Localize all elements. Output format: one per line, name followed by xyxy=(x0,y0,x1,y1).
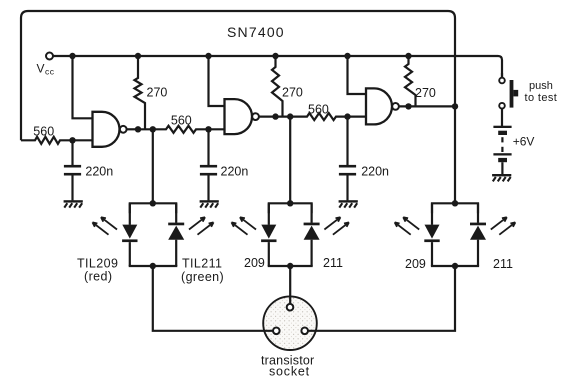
svg-text:209: 209 xyxy=(405,257,426,271)
wire LED pair 3 top rail xyxy=(432,203,478,213)
wire rail to switch xyxy=(501,73,503,78)
wire U1a output xyxy=(127,128,138,130)
LED 2 red (cathode down) xyxy=(268,203,270,225)
capacitor 220n (first) xyxy=(71,140,73,165)
socket pin left (emitter) xyxy=(273,328,280,335)
ground (under C1) xyxy=(64,200,83,202)
LED 2 green (cathode up) xyxy=(311,203,313,223)
switch top terminal xyxy=(499,78,505,84)
wire U1c top input from rail xyxy=(348,56,367,94)
svg-text:cc: cc xyxy=(45,67,55,77)
svg-text:+6V: +6V xyxy=(513,135,535,149)
LED 3 green (cathode up) xyxy=(477,203,479,223)
resistor 270 (first) xyxy=(135,56,146,129)
junction LED pair 2 bottom xyxy=(287,263,293,269)
junction U1b output / LED drop xyxy=(287,113,293,119)
junction rail-R270c xyxy=(405,53,411,59)
junction node U1c bottom input / C3 xyxy=(344,113,350,119)
svg-text:270: 270 xyxy=(147,85,168,99)
wire socket right pin to LED pair 3 bottom xyxy=(308,266,455,331)
wire LED pair 1 bottom rail xyxy=(129,265,178,267)
svg-text:push: push xyxy=(529,80,553,92)
wire LED pair 1 bottom to socket left pin xyxy=(153,266,273,331)
svg-text:220n: 220n xyxy=(361,164,389,178)
inverter bubble U1a xyxy=(120,126,127,133)
wire drop to LED pair 2 xyxy=(289,117,291,204)
resistor 270 (second) xyxy=(272,56,283,117)
junction U1c output / R270c xyxy=(405,103,411,109)
ground (under C2) xyxy=(200,200,219,202)
junction U1b output / R270b xyxy=(272,113,278,119)
nand gate U1b xyxy=(225,99,253,134)
battery cell 2 xyxy=(493,153,511,155)
socket pin top (base) xyxy=(287,304,294,311)
LED 1 green emission arrows xyxy=(189,217,205,229)
wire Vcc supply rail xyxy=(53,56,502,78)
resistor 560 (first, feedback to U1a input) xyxy=(21,137,93,144)
LED 2 red emission arrows xyxy=(240,217,256,229)
svg-text:560: 560 xyxy=(308,103,329,117)
transistor socket body xyxy=(263,296,317,350)
inverter bubble U1c xyxy=(392,103,399,110)
svg-text:TIL209: TIL209 xyxy=(77,257,118,271)
ground (battery) xyxy=(492,174,511,176)
wire drop to LED pair 3 xyxy=(454,106,456,203)
ground (under C3) xyxy=(339,200,358,202)
junction rail-U1a top input xyxy=(69,53,75,59)
svg-text:SN7400: SN7400 xyxy=(227,24,285,40)
LED 3 red (cathode down) xyxy=(431,203,433,225)
battery cell 1 xyxy=(493,126,511,128)
LED 1 red (cathode down) xyxy=(129,203,131,225)
nand gate U1c xyxy=(366,88,392,124)
capacitor 220n (second) xyxy=(207,129,209,165)
svg-text:560: 560 xyxy=(33,125,54,139)
junction U1a output / R270a xyxy=(135,126,141,132)
LED 2 green emission arrows xyxy=(324,217,340,229)
junction LED pair 1 top xyxy=(150,200,156,206)
wire U1b top input from rail xyxy=(209,56,225,106)
wire battery link (dashed) xyxy=(501,137,503,142)
svg-text:209: 209 xyxy=(244,256,265,270)
resistor 560 (third, U1b out to U1c in) xyxy=(276,113,367,120)
wire LED pair 2 top rail xyxy=(269,203,312,213)
wire feedback loop: gate U1c output up, across top, down to input resistor xyxy=(21,11,455,140)
svg-text:270: 270 xyxy=(415,86,436,100)
wire LED pair 2 bottom to socket top pin xyxy=(289,266,291,304)
wire U1b output xyxy=(259,115,276,117)
capacitor 220n (third) xyxy=(346,117,348,166)
junction LED pair 2 top xyxy=(287,200,293,206)
junction node U1a bottom input / C1 xyxy=(69,137,75,143)
svg-text:(red): (red) xyxy=(84,270,112,284)
junction LED pair 3 bottom xyxy=(452,263,458,269)
junction rail-R270b xyxy=(272,53,278,59)
svg-text:211: 211 xyxy=(493,257,513,271)
junction U1a output / LED drop xyxy=(150,126,156,132)
svg-text:(green): (green) xyxy=(181,270,224,284)
LED 1 red emission arrows xyxy=(101,217,117,229)
wire drop to LED pair 1 xyxy=(152,129,154,203)
switch bottom terminal xyxy=(499,103,505,109)
svg-text:270: 270 xyxy=(282,85,303,99)
svg-text:220n: 220n xyxy=(221,164,249,178)
wire LED pair 1 top rail xyxy=(130,203,176,213)
inverter bubble U1b xyxy=(252,113,259,120)
resistor 560 (second, U1a out to U1b in) xyxy=(138,126,225,133)
svg-text:to test: to test xyxy=(525,92,558,104)
nand gate U1a xyxy=(93,112,120,147)
junction rail-R270a xyxy=(135,53,141,59)
wire switch to battery xyxy=(501,109,503,127)
junction LED pair 3 top xyxy=(452,200,458,206)
wire LED pair 2 bottom rail xyxy=(268,265,313,267)
wire U1c output xyxy=(399,105,455,107)
LED 3 red emission arrows xyxy=(403,217,419,229)
junction U1c output / feedback xyxy=(452,103,458,109)
socket pin right (collector) xyxy=(301,328,308,335)
svg-text:V: V xyxy=(37,62,45,76)
LED 3 green emission arrows xyxy=(491,217,507,229)
junction rail-U1c top input xyxy=(344,53,350,59)
junction LED pair 1 bottom xyxy=(150,263,156,269)
LED 1 green (cathode up) xyxy=(175,203,177,223)
wire U1a top input from rail xyxy=(73,56,93,118)
svg-text:211: 211 xyxy=(323,256,343,270)
push-button actuator xyxy=(510,80,514,108)
terminal Vcc xyxy=(46,53,53,60)
svg-text:220n: 220n xyxy=(85,164,113,178)
svg-text:TIL211: TIL211 xyxy=(182,257,222,271)
svg-text:560: 560 xyxy=(171,114,192,128)
wire battery to ground xyxy=(501,162,503,174)
svg-text:socket: socket xyxy=(269,365,310,377)
wire LED pair 3 bottom rail xyxy=(431,265,479,267)
resistor 270 (third) xyxy=(405,56,416,106)
junction node U1b bottom input / C2 xyxy=(205,126,211,132)
junction rail-U1b top input xyxy=(205,53,211,59)
